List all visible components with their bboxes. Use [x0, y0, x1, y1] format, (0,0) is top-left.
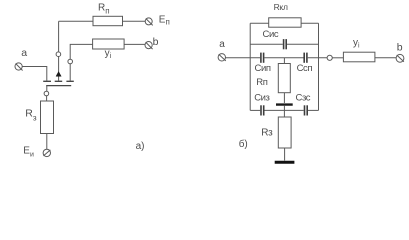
load yi box (fig b)	[343, 52, 375, 62]
load yi box (fig a)	[93, 39, 125, 49]
wire yi to terminal b	[124, 43, 145, 45]
capacitor Ссп plates	[304, 53, 307, 63]
capacitor Сзс plates	[305, 105, 308, 115]
wire Rз to ground	[284, 148, 286, 161]
left vertical branch	[249, 23, 251, 110]
svg-text:a: a	[219, 39, 225, 50]
capacitor Сип plates	[261, 53, 264, 63]
resistor Rп box (fig b)	[278, 64, 290, 93]
wire node to yi	[332, 57, 343, 59]
wire node to resistor R3	[46, 96, 48, 101]
wire Ссп to right branch and node	[308, 57, 327, 59]
terminal b (fig a)	[145, 42, 153, 50]
wire bottom line to Rз	[283, 110, 285, 117]
resistor Rп (fig a)	[93, 16, 123, 25]
wire drain lead	[70, 44, 92, 81]
wire Сис row right	[287, 43, 319, 45]
svg-text:Сзс: Сзс	[296, 93, 311, 104]
terminal Eи	[43, 149, 50, 156]
svg-text:b: b	[397, 42, 403, 54]
wire main to Rn box	[283, 58, 285, 64]
bottom line middle segment	[265, 109, 304, 111]
svg-text:b: b	[153, 36, 159, 48]
bottom line right segment	[308, 109, 319, 111]
svg-text:б): б)	[239, 138, 248, 150]
svg-text:Rз: Rз	[25, 107, 37, 122]
resistor Rз box (fig b)	[278, 117, 291, 148]
wire substrate bar to bottom line	[283, 106, 285, 111]
wire top row to resistor Rn	[59, 20, 93, 22]
resistor Rкл box	[269, 18, 301, 27]
svg-text:yi: yi	[353, 38, 360, 50]
svg-text:Сип: Сип	[255, 63, 271, 74]
svg-text:Rп: Rп	[256, 77, 268, 88]
wire yi to terminal b	[375, 57, 396, 59]
wire substrate lead	[58, 21, 60, 81]
svg-text:Сис: Сис	[263, 29, 279, 40]
capacitor Сиз plates	[261, 105, 264, 115]
wire top left to Rkl	[250, 22, 269, 24]
svg-text:yi: yi	[105, 48, 112, 60]
svg-text:a: a	[21, 47, 27, 59]
node circle on gate lead	[44, 91, 49, 96]
svg-text:Rкл: Rкл	[274, 2, 288, 12]
svg-text:Rз: Rз	[261, 127, 273, 138]
svg-text:Eп: Eп	[159, 15, 170, 27]
wire between Сип and Ссп	[264, 57, 303, 59]
substrate bar	[276, 103, 293, 105]
terminal En	[145, 18, 153, 26]
node circle on drain lead	[68, 59, 73, 64]
svg-text:Ссп: Ссп	[297, 63, 313, 74]
wire Сис row left	[250, 43, 283, 45]
node circle on substrate lead	[56, 52, 61, 57]
bottom line left segment	[250, 109, 260, 111]
resistor Rз (fig a)	[41, 101, 54, 134]
svg-text:Rп: Rп	[98, 3, 110, 16]
terminal a (fig b)	[218, 54, 226, 61]
node circle before yi	[327, 55, 332, 60]
terminal a (fig a)	[15, 63, 23, 71]
capacitor Сис plates	[284, 39, 287, 49]
svg-text:Eи: Eи	[23, 145, 34, 158]
wire Rn box to substrate bar	[283, 93, 285, 103]
wire gate lead down	[46, 86, 48, 92]
transistor VT1 channel segments	[43, 80, 74, 82]
terminal b (fig b)	[396, 54, 404, 62]
svg-text:а): а)	[136, 141, 145, 152]
transistor VT1 gate line	[46, 85, 71, 87]
wire a to gate-source corner	[22, 67, 47, 81]
wire Rkl to right vertical	[301, 22, 318, 24]
svg-text:Сиз: Сиз	[254, 93, 269, 104]
transistor VT1 substrate arrow	[56, 72, 61, 77]
wire Rn to terminal En	[123, 20, 146, 22]
wire resistor to terminal Ei	[46, 134, 48, 150]
right vertical branch	[318, 23, 320, 110]
ground	[275, 161, 295, 164]
wire a to left branch	[226, 57, 261, 59]
